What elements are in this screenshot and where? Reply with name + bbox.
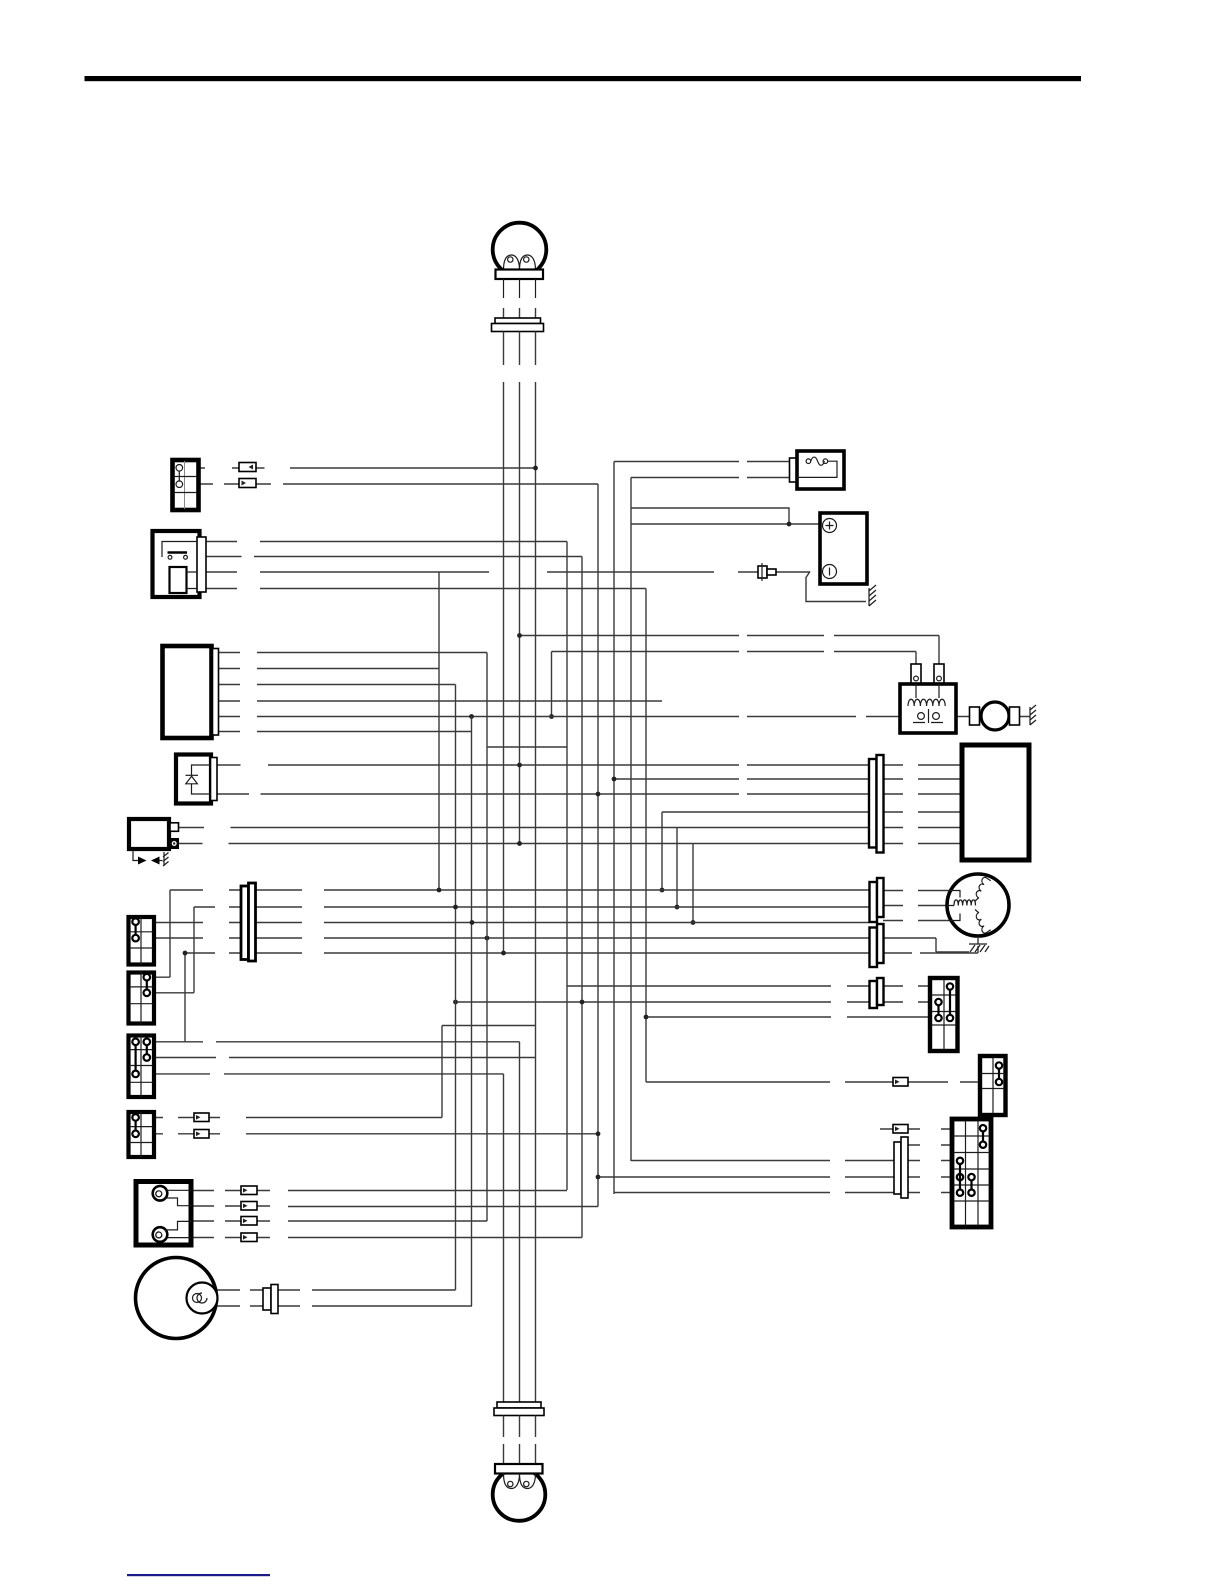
wire: S3 feed y1192 from 614 — [614, 1192, 952, 1194]
wire: harness y938 — [154, 938, 969, 952]
wire: block B lead1 riser — [155, 890, 171, 977]
wire: rectifier lead4 long — [219, 700, 663, 702]
wire: vertical 598 — [597, 484, 599, 1207]
handlebar switch block C — [129, 1035, 155, 1098]
wire: rectifier lead2 drop at 439 — [219, 572, 440, 890]
connector C4 (3-pin) — [894, 1137, 908, 1198]
wire: C-arm y812 — [662, 811, 962, 813]
connector R2c (2-pin, switch feed) — [870, 978, 884, 1008]
bullet connector F2 — [239, 479, 256, 488]
junction node at 439,890 — [437, 888, 442, 893]
inline connector on battery negative lead — [758, 563, 776, 581]
wire: vertical 631 — [630, 478, 632, 1162]
wire: headlight bus left (x=503.5) — [503, 332, 505, 956]
wire: vertical 582 — [581, 557, 583, 1238]
diode unit — [176, 755, 217, 804]
wire: block D lead2 y1134.5 — [155, 1133, 599, 1135]
wire: S4 lead y1002 from horn riser — [456, 1001, 931, 1003]
wire: block D lead1 y1119 — [155, 1117, 443, 1119]
wire: harness y907 — [194, 906, 947, 908]
wire: switch C lead3 to lower bus — [155, 1073, 504, 1075]
tail light connector — [494, 1402, 544, 1464]
wire: S3 feed y1161 from 631 — [631, 1160, 952, 1162]
junction node at 662,890 — [660, 888, 665, 893]
wire: harness y890 — [170, 889, 948, 892]
node: bus x535 y468 — [533, 466, 538, 471]
junction node at 677,907 — [675, 905, 680, 910]
wire: coil primary feed A from bus junction — [520, 636, 940, 665]
bullet connector on y1119 — [194, 1113, 209, 1122]
tail light bulb — [493, 1464, 546, 1521]
rectifier/regulator unit — [163, 646, 219, 738]
wire: tail bus left lower (x=503.5) — [503, 1074, 505, 1402]
connector R2a (3-pin) — [870, 878, 884, 922]
wire: S2 feed y1082 with bullet — [646, 1081, 980, 1083]
condenser/resistor unit — [970, 702, 1020, 730]
junction node at 693,922.5 — [691, 920, 696, 925]
ignition switch S1 — [153, 531, 207, 597]
wire: horn lead2 y1306 — [217, 717, 472, 1307]
wire: harness y922.5 — [154, 921, 948, 923]
bullet connector — [241, 1217, 257, 1226]
battery ground — [806, 572, 876, 607]
bullet connector on y1134 — [194, 1130, 209, 1139]
junction node at 472,922.5 — [470, 920, 475, 925]
wire: S3 feed y1145 stub — [908, 1144, 952, 1146]
wire: block C lead2 long — [155, 1057, 536, 1059]
bullet connector — [893, 1078, 908, 1087]
ground at condenser — [1030, 705, 1036, 725]
connector R1 (6-pin) — [869, 755, 884, 853]
ignition coil — [900, 664, 956, 733]
wire: headlight bus right (x=535.5) — [535, 332, 537, 1403]
headlight connector — [492, 308, 544, 332]
connector block P1 (2-pin) — [173, 460, 199, 510]
junction node at 455.5,907 — [453, 905, 458, 910]
junction node at 185,953 — [183, 951, 188, 956]
wire: coil to condenser to ground (rectifier lead5 through-line) — [219, 716, 1031, 718]
wire: flasher lead2 y843.5 and arm — [179, 843, 962, 845]
junction node at 503.5,953 — [501, 951, 506, 956]
wire: ignition switch lead3 to battery negative — [206, 571, 810, 573]
main fuse box — [790, 451, 845, 489]
junction node at 487,938 — [485, 936, 490, 941]
magneto ground — [969, 936, 989, 952]
junction node at 551.5,716.5 — [549, 714, 554, 719]
bullet connector — [241, 1202, 257, 1211]
wire: P1 pin2 to vertical 598 via fuse — [199, 483, 599, 485]
wire: horn lead1 y1290 — [217, 1289, 456, 1291]
wire: y1025.5 link from 534 drop — [442, 1025, 536, 1027]
wire: diode lead1 to CDI harness — [217, 764, 962, 766]
footer blue line — [127, 1574, 270, 1576]
wire: tail lamp lead1 y1190 — [191, 1190, 567, 1192]
junction node at 519.5,635.5 — [517, 633, 522, 638]
junction node at 598,1133.8 — [596, 1131, 601, 1136]
junction node at 174.2,843.5 — [173, 842, 175, 844]
connector R2b (2-pin) — [870, 924, 884, 967]
wire: P1 pin1 to headlight bus via fuse — [199, 467, 536, 469]
junction node at 598,794 — [596, 792, 601, 797]
junction node at 646,1017 — [644, 1015, 649, 1020]
junction node at 519.5,843.5 — [517, 841, 522, 846]
node: 789 524 — [787, 522, 792, 527]
wire: block B lead2 riser — [155, 907, 195, 993]
wire: rectifier lead6 hook to lead5 — [219, 731, 472, 733]
wire: ignition switch lead2 to vertical 582 — [206, 556, 582, 558]
junction node at 471.5,716.5 — [469, 714, 474, 719]
wire: S4 lead y986 from 567 — [567, 985, 930, 987]
wire: vertical 662 C-shape — [661, 812, 663, 890]
switch block S4 (right, 2x4) — [930, 978, 958, 1051]
switch block S3 (3x5) — [952, 1119, 991, 1227]
wire: CDI feed y779 — [614, 778, 962, 780]
connector J1 (4-pin inline, center-left) — [241, 883, 256, 961]
wire: fuse to battery positive jog — [631, 508, 820, 524]
CDI unit — [962, 745, 1029, 860]
wire: S3 feed y1177 from 598 — [598, 1176, 952, 1178]
bullet connector — [893, 1125, 908, 1134]
handlebar switch block B — [129, 972, 155, 1025]
wire: harness y953 — [185, 946, 978, 953]
wire: fuse feed upper — [614, 461, 790, 463]
switch block S2 (2x3) — [980, 1056, 1006, 1115]
wire: headlight bus center (x=519.5) — [519, 332, 521, 1403]
junction node at 455.5,1002 — [453, 1000, 458, 1005]
wire: rectifier lead3 drop at 455.5 — [219, 685, 456, 1291]
handlebar switch block D — [129, 1112, 155, 1158]
wire: vertical 442 — [441, 1026, 443, 1118]
bullet connector — [241, 1233, 257, 1242]
wire: tail lamp lead4 y1238 — [191, 1237, 582, 1239]
wire: ignition switch lead4 to vertical 646 — [206, 588, 646, 590]
wire: vertical 693 — [692, 844, 694, 923]
top rule — [85, 76, 1082, 81]
wire: coil primary feed B with drop at 551.5 — [552, 652, 917, 717]
junction node at 598,1177 — [596, 1175, 601, 1180]
wire: flasher lead1 y827.5 and arm — [179, 827, 962, 829]
wire: S4 lead y1017 from 646 — [646, 1016, 930, 1018]
wire: tail lamp lead3 y1221 — [191, 1220, 487, 1222]
magneto / flywheel generator — [947, 874, 1009, 936]
wire: S3 feed y1129 with bullet — [880, 1128, 952, 1130]
wire: vertical 677 — [676, 828, 678, 908]
wire: diode lead2 y794 — [217, 793, 962, 795]
flasher relay — [129, 819, 179, 849]
wire: block C lead1 riser — [155, 953, 520, 1042]
wire: vertical 567 — [566, 542, 568, 1191]
wire: tail lamp lead2 y1206 — [191, 1205, 598, 1208]
junction node at 582,1002 — [580, 1000, 585, 1005]
flasher ground with disconnect arrows — [133, 850, 169, 866]
wire: fuse feed lower — [631, 477, 797, 479]
junction node at 614,779 — [612, 777, 617, 782]
connector C5 (horn 2-pin) — [263, 1285, 278, 1314]
handlebar switch block A — [129, 917, 155, 965]
wire: vertical 646 — [645, 589, 647, 1083]
battery — [820, 513, 867, 584]
tail/brake light assembly box — [136, 1182, 191, 1246]
junction node at 519.5,765 — [517, 763, 522, 768]
wire: rectifier lead1 drop at 487 to y747 — [219, 653, 568, 1222]
horn — [136, 1258, 218, 1339]
wire: ignition switch lead1 to vertical 567 — [206, 541, 567, 543]
headlight bulb — [493, 223, 547, 298]
wire: vertical 614 — [613, 462, 615, 1195]
bullet connector F1 — [239, 463, 256, 472]
bullet connectors on tail leads — [241, 1186, 257, 1195]
